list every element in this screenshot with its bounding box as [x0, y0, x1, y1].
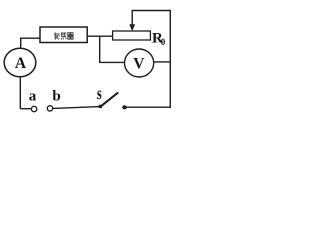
- svg-text:A: A: [15, 55, 27, 72]
- svg-text:b: b: [52, 89, 60, 105]
- svg-text:0: 0: [161, 37, 166, 47]
- svg-text:a: a: [29, 89, 37, 105]
- svg-text:s: s: [96, 84, 102, 104]
- svg-text:V: V: [133, 56, 145, 73]
